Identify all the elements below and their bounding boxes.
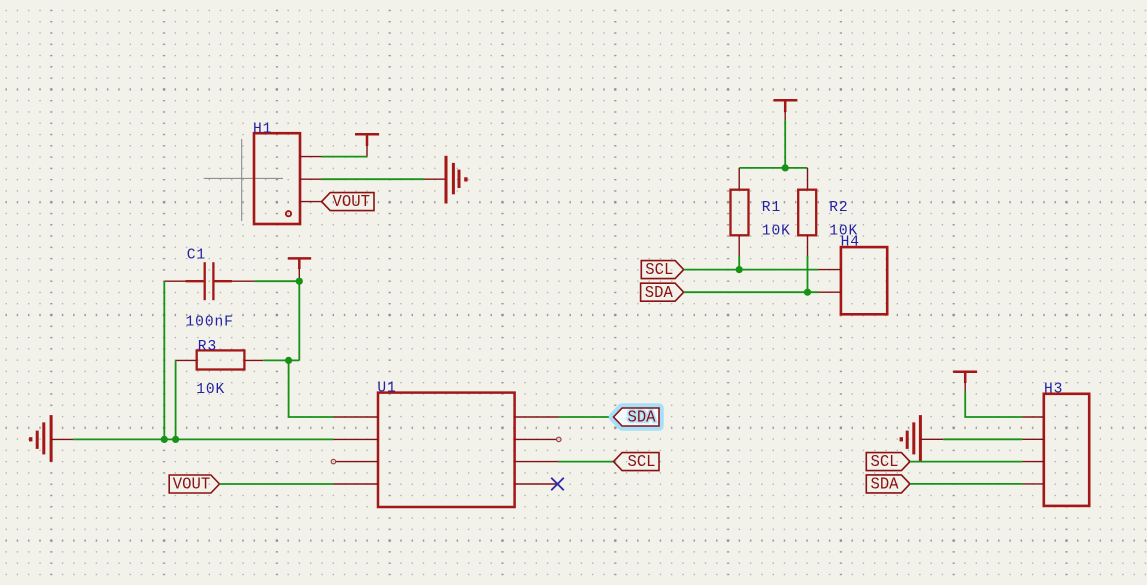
wire SCL to H4 <box>684 269 819 271</box>
power symbol above R1 R2 <box>774 100 798 122</box>
power symbol above H3 <box>953 372 977 393</box>
global label VOUT at U1 pin 4 <box>169 475 219 494</box>
wire R2 bottom to SDA net <box>807 256 809 292</box>
connector H1 pin-1 mark circle <box>286 211 291 216</box>
H4 pin 1 <box>818 269 841 271</box>
wire ground to H3 pin 2 <box>943 438 1022 440</box>
svg-text:C1: C1 <box>187 247 206 263</box>
wire R3 left down <box>175 360 177 439</box>
IC U1 body <box>378 393 515 507</box>
resistor R3 <box>176 350 264 369</box>
wire C1 left down <box>163 281 165 439</box>
svg-text:SDA: SDA <box>628 409 656 427</box>
global label VOUT at H1 pin 3 <box>322 193 374 212</box>
svg-text:H3: H3 <box>1044 382 1063 398</box>
wire across R1 R2 tops <box>739 167 807 169</box>
U1 left pin 1 <box>334 416 379 418</box>
ground symbol left of H3 <box>900 415 944 462</box>
junction R3 net <box>172 436 179 443</box>
svg-text:VOUT: VOUT <box>333 193 371 211</box>
svg-text:R3: R3 <box>198 339 217 355</box>
svg-text:SDA: SDA <box>645 284 673 302</box>
global label SDA at H4 <box>641 283 684 302</box>
main horizontal wire to U1 pin 2 <box>73 438 333 440</box>
global label SDA at H3 <box>866 475 910 494</box>
U1 right pin 1 <box>515 416 559 418</box>
H1 pin 1 <box>300 156 322 158</box>
junction at R3 net <box>285 357 292 364</box>
U1 left pin 4 <box>334 483 379 485</box>
H3 pin 2 <box>1022 438 1043 440</box>
svg-text:100nF: 100nF <box>186 315 234 331</box>
svg-text:SCL: SCL <box>628 453 656 471</box>
svg-text:VOUT: VOUT <box>173 476 211 494</box>
svg-text:SCL: SCL <box>871 453 899 471</box>
H3 pin 1 <box>1022 416 1043 418</box>
U1 right pin 2 unconnected <box>515 437 561 441</box>
wire SCL to H3 pin 3 <box>910 461 1022 463</box>
svg-text:H1: H1 <box>253 121 272 137</box>
svg-text:R2: R2 <box>829 200 848 216</box>
svg-text:H4: H4 <box>841 235 860 251</box>
U1 right pin 3 <box>515 461 559 463</box>
capacitor C1 <box>164 262 254 300</box>
global label SCL at H3 <box>866 453 910 472</box>
wire U1 pin SCL <box>559 461 614 463</box>
svg-text:SCL: SCL <box>645 261 673 279</box>
power symbol above H1 <box>355 134 379 156</box>
no-connect cross <box>551 478 564 491</box>
connector H4 body <box>841 247 887 314</box>
wire H1 pin1 to power <box>322 156 367 158</box>
wire C1 right to junction <box>254 280 299 282</box>
wire SDA to H3 pin 4 <box>910 483 1022 485</box>
svg-text:U1: U1 <box>377 381 396 397</box>
H4 pin 2 <box>818 291 841 293</box>
wire R3 right to vertical <box>263 359 299 361</box>
resistor R1 <box>731 168 749 258</box>
U1 right pin 4 with no-connect <box>515 483 558 485</box>
resistor R2 <box>798 168 816 258</box>
junction R2/SDA <box>804 289 811 296</box>
junction at power <box>782 164 789 171</box>
U1 left pin 3 unconnected <box>331 459 378 463</box>
wire R1 bottom to SCL net <box>738 256 740 270</box>
wire U1 pin SDA <box>559 416 614 418</box>
svg-text:R1: R1 <box>762 200 781 216</box>
global label SDA (selected, highlighted) <box>614 408 660 427</box>
svg-text:SDA: SDA <box>871 476 899 494</box>
junction at C1/power <box>296 278 303 285</box>
wire SDA to H4 <box>684 291 819 293</box>
cursor crosshair <box>204 139 283 221</box>
ground symbol far left <box>29 415 73 462</box>
global label SCL at H4 <box>641 261 683 280</box>
U1 left pin 2 <box>334 438 379 440</box>
wire power down to junction <box>784 120 786 168</box>
svg-text:10K: 10K <box>762 224 791 240</box>
svg-text:10K: 10K <box>196 382 225 398</box>
connector H3 body <box>1044 394 1089 506</box>
H3 pin 3 <box>1022 461 1043 463</box>
connector H1 body <box>254 133 300 224</box>
wire junction down to R3 net <box>298 281 300 360</box>
wire VOUT to U1 pin 4 <box>220 483 334 485</box>
H1 pin 2 <box>300 178 322 180</box>
wire power to H3 pin 1 <box>965 391 1022 417</box>
junction C1 net <box>161 436 168 443</box>
wire junction down to U1 pin 1 <box>289 360 334 417</box>
global label SCL at U1 <box>614 453 660 472</box>
H3 pin 4 <box>1022 483 1043 485</box>
wire H1 pin2 to ground <box>322 178 424 180</box>
power symbol above C1 junction <box>288 258 311 281</box>
junction R1/SCL <box>736 266 743 273</box>
H1 pin 3 <box>300 201 322 203</box>
ground symbol right of H1 <box>424 156 468 204</box>
